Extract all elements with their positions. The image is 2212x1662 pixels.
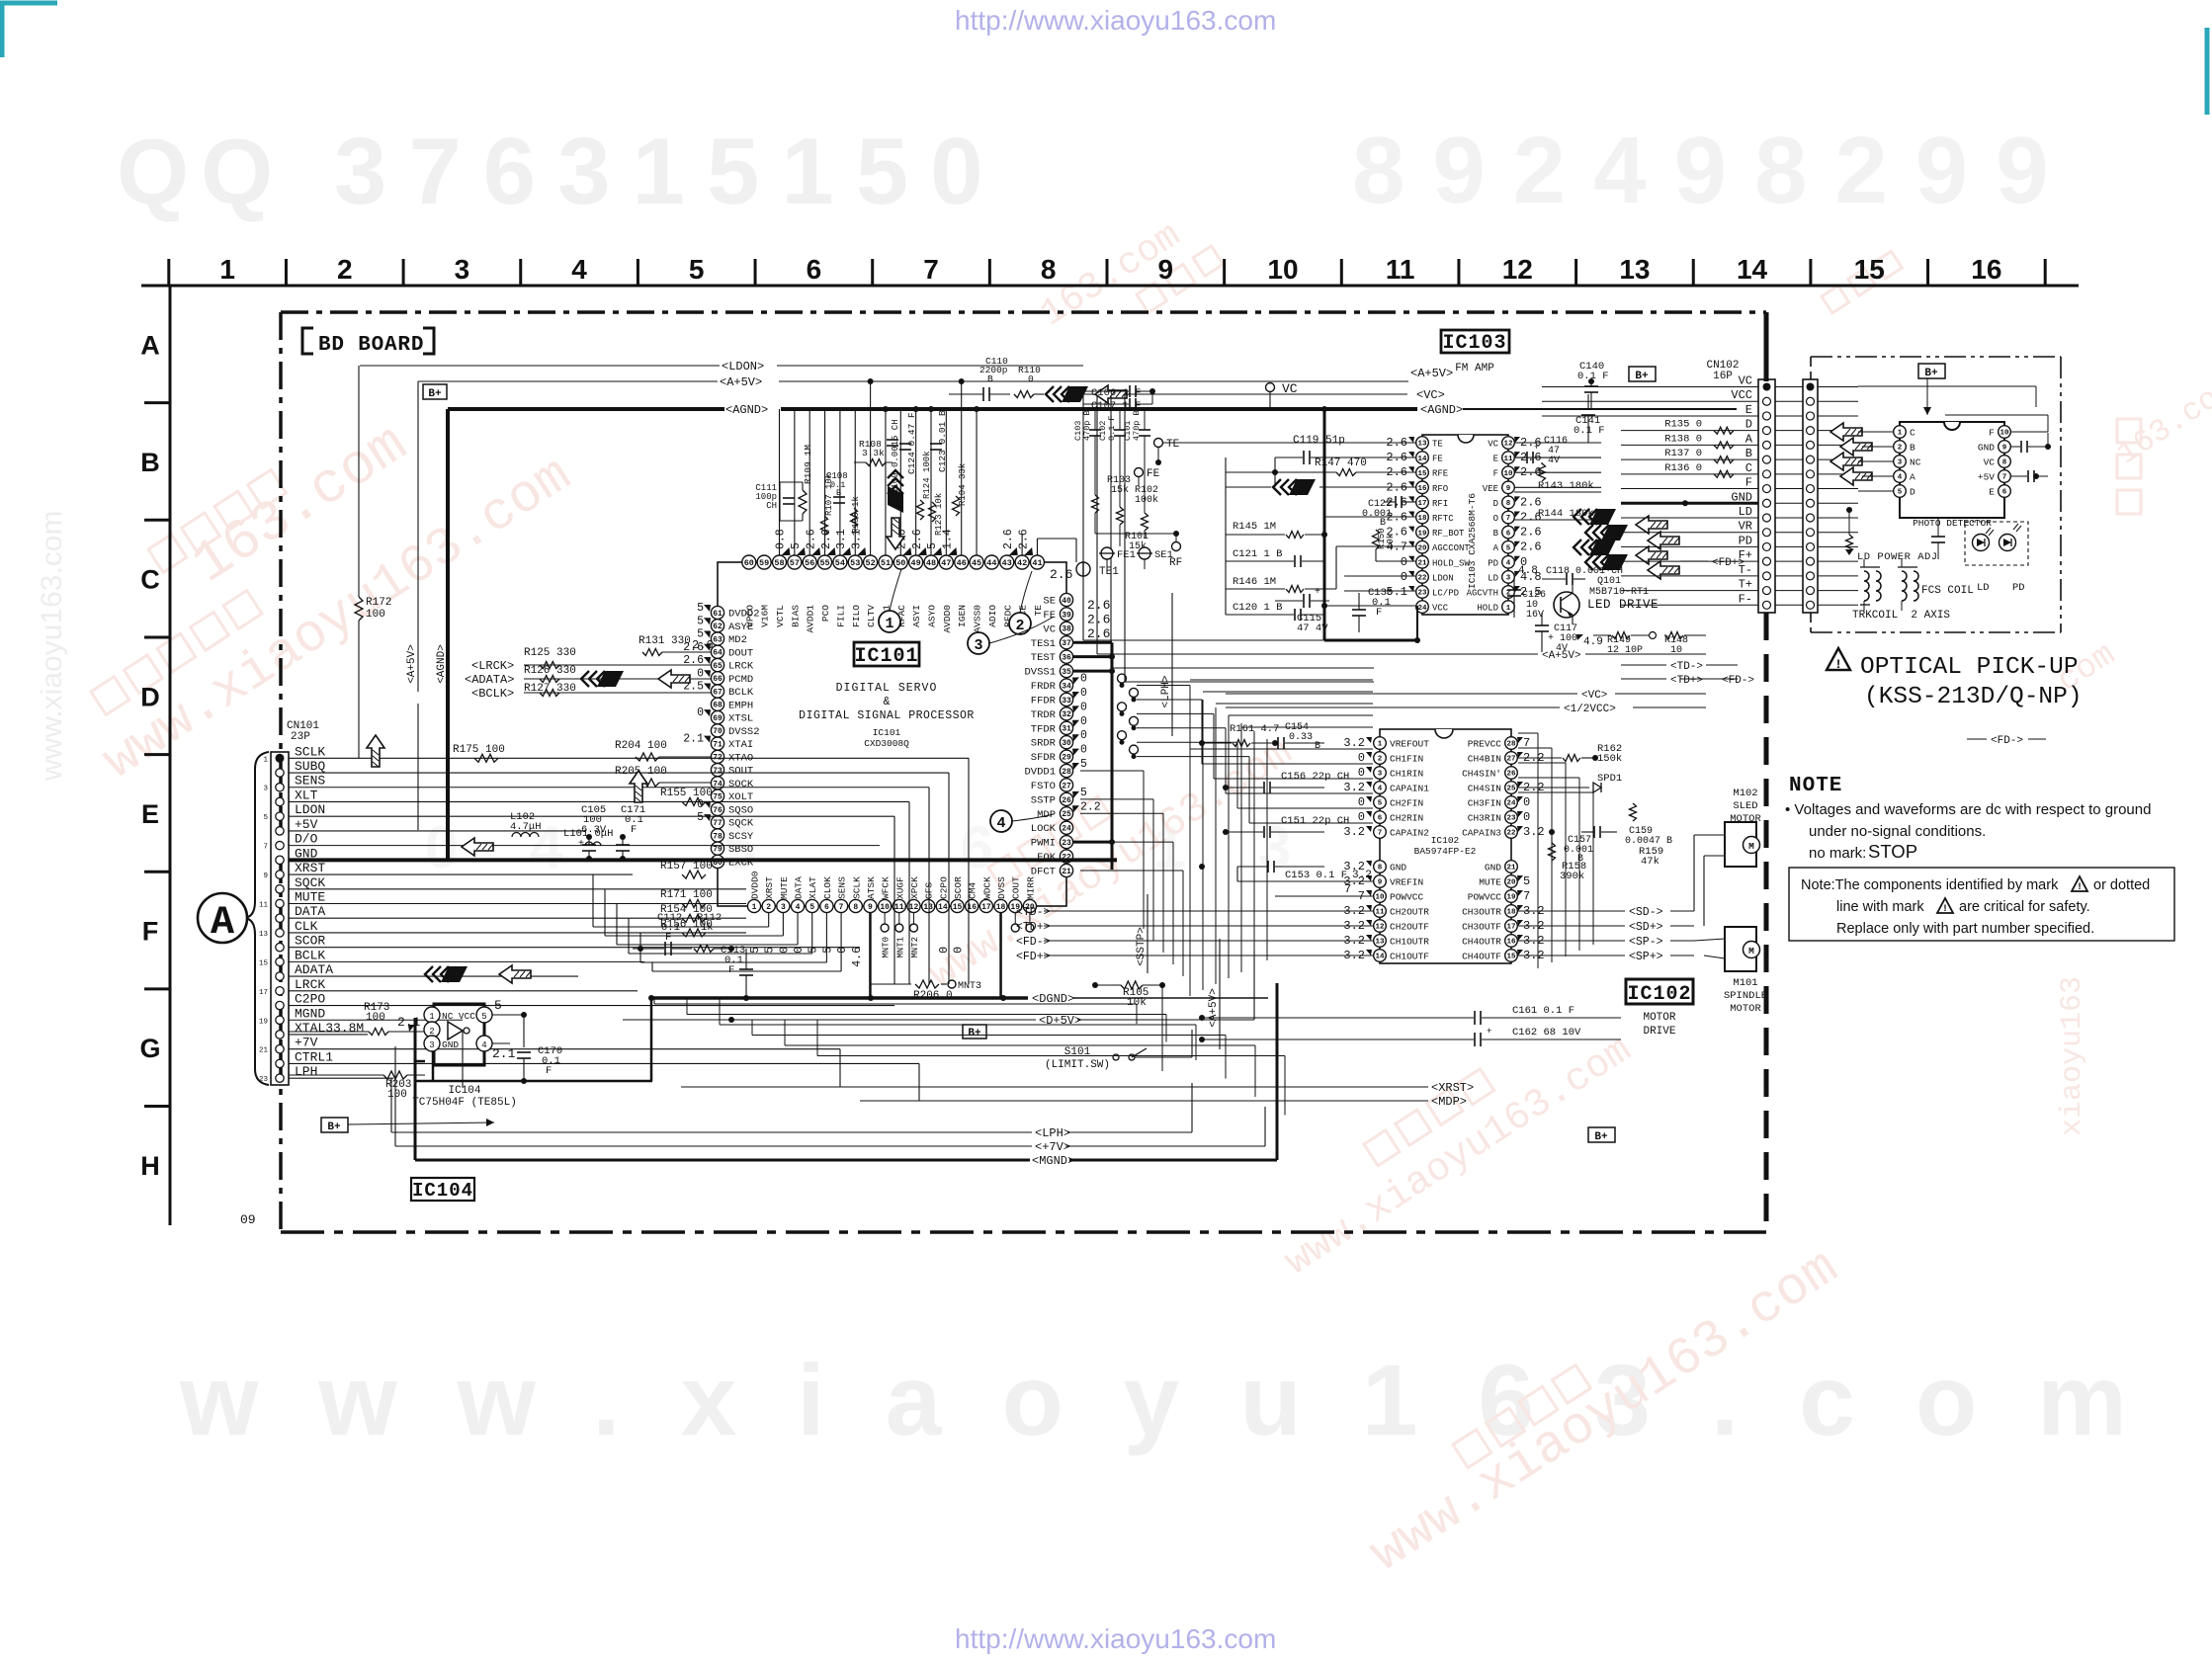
svg-text:IC104: IC104 bbox=[448, 1085, 480, 1097]
node circle2 bbox=[1009, 613, 1031, 634]
wire AGND vertical bbox=[446, 409, 450, 859]
IC102 left pins bbox=[1374, 737, 1387, 750]
led box bbox=[1965, 522, 2028, 565]
connector CN102 pins right bbox=[1807, 383, 1815, 391]
svg-text:0: 0 bbox=[1401, 555, 1407, 569]
wire XRST bus bbox=[681, 1086, 1428, 1088]
wire AGCCONT bbox=[1336, 545, 1415, 547]
svg-text:C156 22p CH: C156 22p CH bbox=[1281, 771, 1349, 783]
test point TE bbox=[1154, 439, 1163, 448]
svg-text:16P: 16P bbox=[1713, 371, 1733, 382]
svg-text:23: 23 bbox=[1506, 815, 1516, 823]
svg-text:SQSO: SQSO bbox=[728, 804, 753, 816]
svg-text:53: 53 bbox=[850, 558, 860, 568]
svg-text:6: 6 bbox=[1506, 530, 1511, 538]
photo detector right pins bbox=[1999, 426, 2011, 439]
svg-text:<LRCK>: <LRCK> bbox=[471, 659, 514, 673]
capacitor pickup2 bbox=[2027, 470, 2029, 482]
svg-text:48: 48 bbox=[926, 558, 936, 568]
svg-text:IC102: IC102 bbox=[1431, 835, 1460, 846]
resistor R171 bbox=[682, 900, 706, 908]
svg-text:3: 3 bbox=[455, 254, 470, 285]
svg-text:MOTOR: MOTOR bbox=[1730, 1003, 1761, 1015]
svg-text:21: 21 bbox=[1417, 560, 1427, 568]
svg-text:13: 13 bbox=[923, 903, 933, 912]
photodiode PD bbox=[1999, 535, 2016, 551]
svg-text:AGCVTH: AGCVTH bbox=[1467, 589, 1498, 599]
svg-text:56: 56 bbox=[805, 558, 814, 568]
BD board border right lower bbox=[1764, 613, 1769, 1232]
svg-text:VREFIN: VREFIN bbox=[1390, 877, 1423, 888]
svg-text:R127 330: R127 330 bbox=[524, 683, 576, 695]
svg-text:2: 2 bbox=[1378, 756, 1383, 764]
resistor R105 bbox=[1121, 981, 1143, 989]
svg-text:2.6: 2.6 bbox=[692, 638, 714, 652]
svg-text:5: 5 bbox=[697, 615, 704, 627]
svg-text:0: 0 bbox=[1080, 715, 1087, 728]
svg-text:(KSS-213D/Q-NP): (KSS-213D/Q-NP) bbox=[1864, 684, 2083, 710]
svg-text:11: 11 bbox=[1375, 909, 1385, 917]
svg-text:C120 1 B: C120 1 B bbox=[1233, 602, 1282, 614]
svg-text:73: 73 bbox=[713, 767, 723, 776]
wires rows down bbox=[968, 758, 970, 984]
svg-text:XRST: XRST bbox=[764, 876, 775, 899]
svg-text:15: 15 bbox=[1417, 470, 1427, 478]
svg-text:24: 24 bbox=[1062, 825, 1071, 834]
IC103 label box bbox=[1441, 330, 1509, 353]
svg-text:9: 9 bbox=[1506, 485, 1511, 493]
svg-text:6: 6 bbox=[807, 254, 822, 285]
svg-text:A: A bbox=[1493, 543, 1499, 553]
svg-text:<VC>: <VC> bbox=[1581, 690, 1607, 702]
svg-text:9: 9 bbox=[263, 873, 268, 880]
svg-text:F: F bbox=[1745, 476, 1752, 490]
svg-text:0.1 F: 0.1 F bbox=[1574, 425, 1605, 437]
svg-text:L101 0μH: L101 0μH bbox=[563, 828, 613, 840]
svg-text:5: 5 bbox=[1080, 758, 1087, 771]
svg-text:TES1: TES1 bbox=[1031, 638, 1056, 650]
brace A bbox=[243, 752, 269, 1085]
svg-text:2: 2 bbox=[1898, 445, 1903, 453]
arrow symbol down left bbox=[367, 735, 384, 767]
wires servo to IC102 bbox=[1137, 685, 1190, 687]
svg-text:R138 0: R138 0 bbox=[1664, 433, 1702, 445]
arrow symbol ADATA mid bbox=[581, 671, 589, 687]
svg-text:SUBQ: SUBQ bbox=[295, 759, 325, 774]
svg-text:71: 71 bbox=[713, 740, 723, 749]
svg-text:16: 16 bbox=[1506, 939, 1516, 947]
svg-text:38: 38 bbox=[1062, 625, 1071, 634]
IC104 pin2 bbox=[424, 1022, 440, 1038]
svg-text:BA5974FP-E2: BA5974FP-E2 bbox=[1414, 846, 1477, 857]
resistor R155 bbox=[682, 797, 706, 805]
svg-text:F: F bbox=[631, 824, 637, 836]
svg-text:C: C bbox=[140, 565, 160, 595]
svg-text:60: 60 bbox=[744, 558, 754, 568]
svg-text:MNT2: MNT2 bbox=[910, 937, 920, 958]
svg-text:VR: VR bbox=[1739, 520, 1752, 534]
svg-text:WFCK: WFCK bbox=[881, 876, 892, 899]
svg-text:B: B bbox=[1380, 518, 1386, 529]
arrow symbol +5V row bbox=[462, 838, 493, 856]
power B+ box left bbox=[423, 384, 447, 399]
svg-text:09: 09 bbox=[240, 1212, 256, 1227]
svg-text:10: 10 bbox=[1267, 254, 1298, 285]
svg-text:BCLK: BCLK bbox=[728, 687, 754, 699]
svg-text:LRCK: LRCK bbox=[295, 977, 325, 992]
svg-text:8: 8 bbox=[1506, 500, 1511, 508]
svg-text:A: A bbox=[1745, 432, 1753, 446]
arrow symbol ADATA row bbox=[425, 966, 433, 982]
svg-text:MUTE: MUTE bbox=[1479, 877, 1501, 888]
IC101 right pins 40-21 bbox=[1060, 593, 1072, 606]
arrow cluster hatched bbox=[1636, 516, 1667, 534]
svg-text:67: 67 bbox=[713, 688, 723, 697]
svg-text:69: 69 bbox=[713, 714, 723, 723]
svg-text:XTSL: XTSL bbox=[728, 713, 753, 725]
svg-text:62: 62 bbox=[713, 623, 723, 631]
svg-text:R131 330: R131 330 bbox=[638, 635, 691, 647]
svg-text:TC75H04F (TE85L): TC75H04F (TE85L) bbox=[412, 1097, 517, 1109]
svg-text:<SD+>: <SD+> bbox=[1629, 921, 1663, 934]
svg-text:24: 24 bbox=[1417, 605, 1427, 613]
test point FE1 bbox=[1101, 547, 1113, 559]
svg-text:4.6: 4.6 bbox=[851, 947, 864, 967]
svg-text:ADATA: ADATA bbox=[295, 962, 333, 977]
svg-text:SCOR: SCOR bbox=[295, 934, 325, 949]
svg-text:0.8: 0.8 bbox=[775, 529, 788, 549]
wire VCC thick bbox=[1416, 606, 1418, 640]
svg-text:F: F bbox=[1989, 428, 1995, 439]
svg-text:D: D bbox=[140, 682, 160, 711]
svg-text:<TD+>: <TD+> bbox=[1670, 675, 1703, 687]
svg-text:F-: F- bbox=[1739, 592, 1752, 606]
svg-text:<LPH>: <LPH> bbox=[1160, 675, 1172, 707]
svg-text:xiaoyu163: xiaoyu163 bbox=[2056, 976, 2089, 1136]
svg-text:B: B bbox=[1493, 529, 1499, 539]
svg-text:22: 22 bbox=[1417, 575, 1427, 583]
svg-text:F: F bbox=[1493, 469, 1498, 479]
svg-text:A: A bbox=[211, 901, 234, 946]
svg-text:LC/PD: LC/PD bbox=[1432, 589, 1459, 599]
svg-text:TRDR: TRDR bbox=[1031, 709, 1057, 721]
IC103 left pins bbox=[1416, 437, 1429, 450]
svg-text:DRIVE: DRIVE bbox=[1643, 1026, 1675, 1038]
svg-text:16V: 16V bbox=[1526, 610, 1544, 621]
svg-text:IC104: IC104 bbox=[412, 1180, 473, 1202]
svg-text:3: 3 bbox=[1378, 771, 1383, 779]
svg-text:C106 1 F: C106 1 F bbox=[1091, 387, 1141, 399]
IC104 pin3 bbox=[424, 1036, 440, 1051]
svg-text:TEST: TEST bbox=[1031, 652, 1056, 664]
wires right pins down bbox=[1080, 770, 1144, 772]
IC101 left pins 61-80 bbox=[711, 606, 723, 619]
svg-text:SE1: SE1 bbox=[1154, 549, 1173, 561]
svg-text:<VC>: <VC> bbox=[1416, 388, 1445, 402]
svg-text:0: 0 bbox=[697, 667, 704, 680]
svg-text:5: 5 bbox=[1523, 874, 1530, 888]
svg-text:0.1 F: 0.1 F bbox=[1107, 415, 1117, 441]
svg-text:0: 0 bbox=[1358, 766, 1365, 780]
svg-text:XLT: XLT bbox=[295, 788, 318, 802]
capacitor C170 bbox=[517, 1051, 531, 1053]
svg-text:28: 28 bbox=[1062, 768, 1071, 777]
power B+ box IC102 bbox=[1588, 1127, 1615, 1142]
svg-text:SCLK: SCLK bbox=[851, 876, 862, 899]
svg-text:1: 1 bbox=[1378, 741, 1383, 749]
wire LPH bus bbox=[391, 1131, 1032, 1133]
capacitor pickup3 bbox=[1931, 536, 1945, 538]
svg-text:STOP: STOP bbox=[1868, 841, 1917, 862]
svg-text:H: H bbox=[140, 1151, 160, 1181]
svg-text:4.8: 4.8 bbox=[1518, 565, 1538, 577]
svg-text:R125 330: R125 330 bbox=[524, 647, 576, 659]
svg-text:2.2: 2.2 bbox=[1080, 800, 1101, 813]
connector CN102 strip1 bbox=[1758, 379, 1775, 613]
svg-text:2200p: 2200p bbox=[979, 365, 1008, 375]
svg-text:15: 15 bbox=[259, 959, 269, 967]
svg-text:C121 1 B: C121 1 B bbox=[1233, 548, 1282, 560]
svg-text:3: 3 bbox=[263, 786, 268, 793]
svg-text:21: 21 bbox=[259, 1047, 269, 1055]
test point VC bbox=[1266, 383, 1275, 392]
wire vertical 1176 bbox=[1161, 985, 1163, 1071]
wires coils bbox=[1863, 559, 1865, 567]
arrow symbol down bbox=[888, 470, 903, 513]
svg-text:25: 25 bbox=[1062, 810, 1071, 819]
svg-text:0.33: 0.33 bbox=[1289, 732, 1313, 743]
svg-text:LOCK: LOCK bbox=[1031, 823, 1057, 835]
svg-text:27: 27 bbox=[1506, 756, 1515, 764]
svg-text:• Voltages and waveforms are d: • Voltages and waveforms are dc with res… bbox=[1785, 801, 2151, 818]
svg-text:TE: TE bbox=[1033, 605, 1044, 617]
svg-text:PREVCC: PREVCC bbox=[1468, 739, 1502, 750]
svg-text:RFE: RFE bbox=[1432, 469, 1448, 479]
svg-text:37: 37 bbox=[1062, 639, 1071, 648]
wire VC stub bbox=[1269, 391, 1271, 409]
svg-text:FSTO: FSTO bbox=[1031, 781, 1056, 792]
svg-text:8: 8 bbox=[1041, 254, 1057, 285]
svg-text:0: 0 bbox=[1358, 795, 1365, 809]
svg-text:57: 57 bbox=[790, 558, 800, 568]
svg-text:D: D bbox=[1493, 499, 1498, 509]
svg-text:MGND: MGND bbox=[295, 1006, 325, 1021]
svg-text:DFCT: DFCT bbox=[1031, 866, 1056, 877]
svg-text:33: 33 bbox=[1062, 697, 1071, 706]
capacitor C108 bbox=[833, 496, 845, 498]
svg-text:CH3OUTR: CH3OUTR bbox=[1462, 907, 1501, 918]
svg-text:3: 3 bbox=[1506, 575, 1511, 583]
svg-text:23P: 23P bbox=[291, 731, 310, 743]
svg-text:QQ: QQ bbox=[117, 120, 285, 223]
svg-text:VC: VC bbox=[1739, 374, 1752, 388]
svg-text:HOLD: HOLD bbox=[1477, 604, 1498, 614]
svg-text:XPCK: XPCK bbox=[909, 876, 920, 899]
focus coil bbox=[1864, 571, 1869, 601]
svg-text:no mark:: no mark: bbox=[1809, 845, 1866, 862]
svg-text:100k: 100k bbox=[1135, 494, 1158, 506]
svg-text:SCOR: SCOR bbox=[953, 876, 964, 899]
svg-text:+5V: +5V bbox=[295, 817, 318, 832]
svg-text:6: 6 bbox=[824, 903, 829, 912]
svg-text:IC103: IC103 bbox=[1442, 332, 1506, 355]
svg-text:2.1: 2.1 bbox=[683, 733, 704, 746]
svg-text:MOTOR: MOTOR bbox=[1730, 813, 1761, 825]
svg-text:B: B bbox=[1910, 443, 1915, 454]
wire VCC row bbox=[1324, 605, 1415, 607]
svg-text:ATSK: ATSK bbox=[866, 876, 877, 899]
IC104 pin4 bbox=[476, 1036, 492, 1051]
wire IC104 out bbox=[492, 1042, 510, 1044]
svg-text:4: 4 bbox=[996, 815, 1005, 832]
wires IC103 right rows bbox=[1514, 442, 1601, 444]
svg-text:CH3OUTF: CH3OUTF bbox=[1462, 922, 1501, 933]
svg-text:VC: VC bbox=[1043, 623, 1056, 635]
note box bbox=[1789, 868, 2174, 941]
wires IC102 left mesh bbox=[1189, 692, 1191, 996]
svg-text:14: 14 bbox=[1737, 254, 1768, 285]
svg-text:M5B710-RT1: M5B710-RT1 bbox=[1589, 587, 1649, 598]
IC101 top pins 60-41 bbox=[742, 555, 756, 569]
svg-text:11: 11 bbox=[1386, 254, 1415, 285]
svg-text:WDCK: WDCK bbox=[981, 876, 992, 899]
svg-text:R124 100k: R124 100k bbox=[922, 451, 932, 499]
svg-text:+5V: +5V bbox=[1978, 472, 1995, 483]
svg-text:VCC: VCC bbox=[1731, 388, 1752, 402]
svg-text:17: 17 bbox=[1506, 924, 1515, 932]
svg-text:TRKCOIL 2 AXIS: TRKCOIL 2 AXIS bbox=[1852, 610, 1950, 622]
svg-text:<D+5V>: <D+5V> bbox=[1039, 1014, 1081, 1028]
connector CN102 mating wires bbox=[1775, 386, 1803, 388]
svg-text:GND: GND bbox=[442, 1039, 459, 1050]
svg-text:!: ! bbox=[1834, 657, 1842, 672]
svg-text:23: 23 bbox=[1062, 839, 1071, 848]
svg-text:SOUT: SOUT bbox=[728, 766, 753, 778]
svg-text:<FD->: <FD-> bbox=[1991, 735, 2023, 747]
svg-text:16: 16 bbox=[1971, 254, 2001, 285]
IC101 servo test pads bbox=[1118, 674, 1127, 683]
svg-text:<+7V>: <+7V> bbox=[1035, 1140, 1070, 1154]
wires pickup right bbox=[2047, 433, 2049, 447]
svg-text:49: 49 bbox=[911, 558, 921, 568]
op-amp U3 IC103 body bbox=[1422, 435, 1508, 615]
svg-text:65: 65 bbox=[713, 662, 723, 671]
svg-text:<SD->: <SD-> bbox=[1629, 906, 1663, 919]
svg-text:F: F bbox=[546, 1065, 552, 1077]
svg-text:IC101: IC101 bbox=[873, 727, 901, 738]
wire A+5V lower bbox=[1226, 653, 1538, 655]
IC103 right pins bbox=[1502, 437, 1515, 450]
svg-text:5: 5 bbox=[263, 814, 268, 822]
svg-text:3.2: 3.2 bbox=[1352, 870, 1372, 881]
svg-text:24: 24 bbox=[1506, 800, 1516, 808]
svg-text:CXD3008Q: CXD3008Q bbox=[864, 738, 909, 749]
svg-text:5: 5 bbox=[697, 811, 704, 824]
svg-text:31: 31 bbox=[1062, 725, 1071, 734]
svg-text:64: 64 bbox=[713, 649, 723, 658]
svg-text:100: 100 bbox=[366, 609, 385, 621]
svg-text:1: 1 bbox=[219, 254, 235, 285]
motor M101 bbox=[1725, 927, 1756, 971]
svg-text:3: 3 bbox=[781, 903, 786, 912]
resistor R110 sym bbox=[1014, 391, 1034, 398]
wires left verticals to buses bbox=[390, 1078, 392, 1132]
svg-text:<ADATA>: <ADATA> bbox=[465, 673, 514, 687]
svg-text:15: 15 bbox=[1506, 954, 1516, 961]
svg-text:CH4BIN: CH4BIN bbox=[1468, 754, 1501, 765]
svg-text:ASYO: ASYO bbox=[927, 605, 938, 627]
svg-text:&: & bbox=[884, 696, 891, 708]
svg-text:<MDP>: <MDP> bbox=[1431, 1095, 1467, 1109]
svg-text:CH3FIN: CH3FIN bbox=[1468, 798, 1501, 809]
svg-text:43: 43 bbox=[1002, 558, 1012, 568]
svg-text:2.6: 2.6 bbox=[1087, 612, 1110, 626]
wires pickup pins bbox=[1858, 431, 1893, 433]
svg-text:1: 1 bbox=[752, 903, 757, 912]
svg-text:VCTL: VCTL bbox=[775, 605, 786, 627]
svg-text:RFI: RFI bbox=[1432, 499, 1448, 509]
grid ruler top line bbox=[141, 285, 2079, 288]
svg-text:PD: PD bbox=[2012, 582, 2025, 594]
svg-text:R137 0: R137 0 bbox=[1664, 448, 1702, 459]
svg-text:C161 0.1 F: C161 0.1 F bbox=[1512, 1005, 1574, 1017]
arrow cluster black bbox=[1574, 509, 1581, 525]
svg-text:0.001: 0.001 bbox=[1362, 509, 1392, 520]
svg-text:BIAS: BIAS bbox=[790, 605, 801, 627]
svg-text:NOTE: NOTE bbox=[1789, 775, 1842, 797]
svg-text:19: 19 bbox=[1506, 894, 1516, 902]
svg-text:F: F bbox=[728, 964, 734, 976]
svg-text:M102: M102 bbox=[1733, 788, 1757, 799]
svg-text:14: 14 bbox=[938, 903, 948, 912]
svg-text:M: M bbox=[1748, 946, 1754, 956]
svg-text:CH2OUTF: CH2OUTF bbox=[1390, 922, 1429, 933]
svg-text:CH1OUTR: CH1OUTR bbox=[1390, 937, 1429, 948]
wire VREFIN bbox=[1236, 867, 1238, 881]
svg-text:Note:The components identified: Note:The components identified by mark bbox=[1801, 877, 2059, 893]
wires IC101 top pins to AGND bbox=[779, 409, 781, 555]
svg-text:F: F bbox=[142, 917, 159, 947]
power B+ box bottomleft bbox=[321, 1118, 348, 1132]
svg-text:DVDD1: DVDD1 bbox=[1024, 767, 1056, 779]
svg-text:10: 10 bbox=[880, 903, 890, 912]
wire RFTC bbox=[1324, 516, 1415, 518]
wires CN102 left bbox=[1542, 386, 1758, 388]
svg-text:PHOTO DETECTOR: PHOTO DETECTOR bbox=[1913, 518, 1992, 529]
capacitor C111 bbox=[779, 482, 781, 521]
svg-text:R206 0: R206 0 bbox=[913, 990, 953, 1002]
svg-text:NC: NC bbox=[442, 1011, 454, 1022]
svg-text:2.6: 2.6 bbox=[1050, 567, 1072, 582]
svg-text:1k: 1k bbox=[701, 922, 714, 934]
wire LDON bus bbox=[360, 365, 720, 367]
IC104 inverter triangle bbox=[448, 1022, 463, 1039]
svg-text:PCO: PCO bbox=[820, 605, 831, 622]
svg-text:7: 7 bbox=[1378, 830, 1383, 838]
svg-text:R135 0: R135 0 bbox=[1664, 419, 1702, 431]
svg-text:AVDD0: AVDD0 bbox=[942, 605, 953, 633]
svg-text:<A+5V>: <A+5V> bbox=[1208, 988, 1220, 1028]
svg-text:11: 11 bbox=[894, 903, 904, 912]
svg-text:CLOK: CLOK bbox=[822, 876, 833, 899]
inverter IC104 body bbox=[434, 1004, 484, 1065]
svg-text:+: + bbox=[1487, 1027, 1491, 1037]
svg-text:E: E bbox=[1493, 455, 1498, 464]
wire A+5V drop bbox=[417, 381, 419, 692]
svg-text:10: 10 bbox=[1999, 430, 2009, 438]
svg-text:VCC: VCC bbox=[1432, 604, 1449, 614]
optical pickup border bbox=[1811, 356, 2061, 358]
